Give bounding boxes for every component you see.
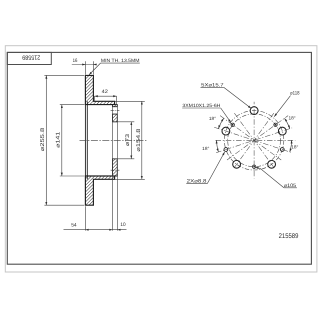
svg-text:18°: 18° xyxy=(209,116,216,121)
svg-text:⌀154.8: ⌀154.8 xyxy=(136,129,142,152)
dia 255.8 dimension xyxy=(44,75,84,205)
dimension 42 xyxy=(94,96,116,104)
dia 154.8 dimension xyxy=(115,101,145,179)
recessed face line xyxy=(86,101,88,179)
disc ring + hat wall top xyxy=(85,75,114,104)
left face line through middle xyxy=(84,105,86,176)
dimension 16 xyxy=(72,61,97,74)
svg-text:18°: 18° xyxy=(291,145,298,150)
svg-text:MIN TH. 13.5MM: MIN TH. 13.5MM xyxy=(101,58,140,63)
svg-text:18°: 18° xyxy=(202,146,209,151)
inner drawing frame xyxy=(7,52,311,264)
pitch circles xyxy=(224,111,283,170)
svg-text:⌀118: ⌀118 xyxy=(290,91,300,97)
hatched material xyxy=(85,75,117,205)
title box xyxy=(7,52,51,64)
centerline xyxy=(80,139,147,141)
hat face bottom xyxy=(113,159,118,176)
svg-text:10: 10 xyxy=(120,222,125,228)
disc ring + hat wall bottom xyxy=(85,176,114,205)
svg-text:⌀255.8: ⌀255.8 xyxy=(40,128,46,152)
18 deg arcs xyxy=(217,118,292,152)
svg-text:42: 42 xyxy=(102,89,108,95)
svg-text:16: 16 xyxy=(73,58,78,64)
svg-text:3XM10X1.25-6H: 3XM10X1.25-6H xyxy=(182,103,220,108)
svg-text:215589: 215589 xyxy=(279,233,299,240)
5 lug holes dia 15.7 on 118 xyxy=(222,107,286,169)
bolt hole centerlines xyxy=(111,109,120,111)
3 M10 threaded holes on 105 xyxy=(231,123,277,168)
dia 141 dimension xyxy=(60,105,85,176)
svg-text:215589: 215589 xyxy=(22,54,40,61)
hat face top, below bolt hole xyxy=(113,114,118,122)
interior edges y=104.6 / 176 between ring and hat face xyxy=(93,104,112,106)
svg-text:⌀73: ⌀73 xyxy=(125,134,131,146)
bottom dims 54 and 10 xyxy=(64,107,127,231)
dia 73 dimension xyxy=(114,122,135,159)
2 dia 8.8 holes on 118 xyxy=(224,148,284,152)
center lines / spokes xyxy=(214,102,295,179)
svg-text:⌀141: ⌀141 xyxy=(56,132,62,148)
outer sheet edge xyxy=(5,46,317,272)
svg-text:18°: 18° xyxy=(289,115,296,120)
hat face top, above bolt hole xyxy=(113,105,118,107)
svg-text:54: 54 xyxy=(71,222,77,228)
